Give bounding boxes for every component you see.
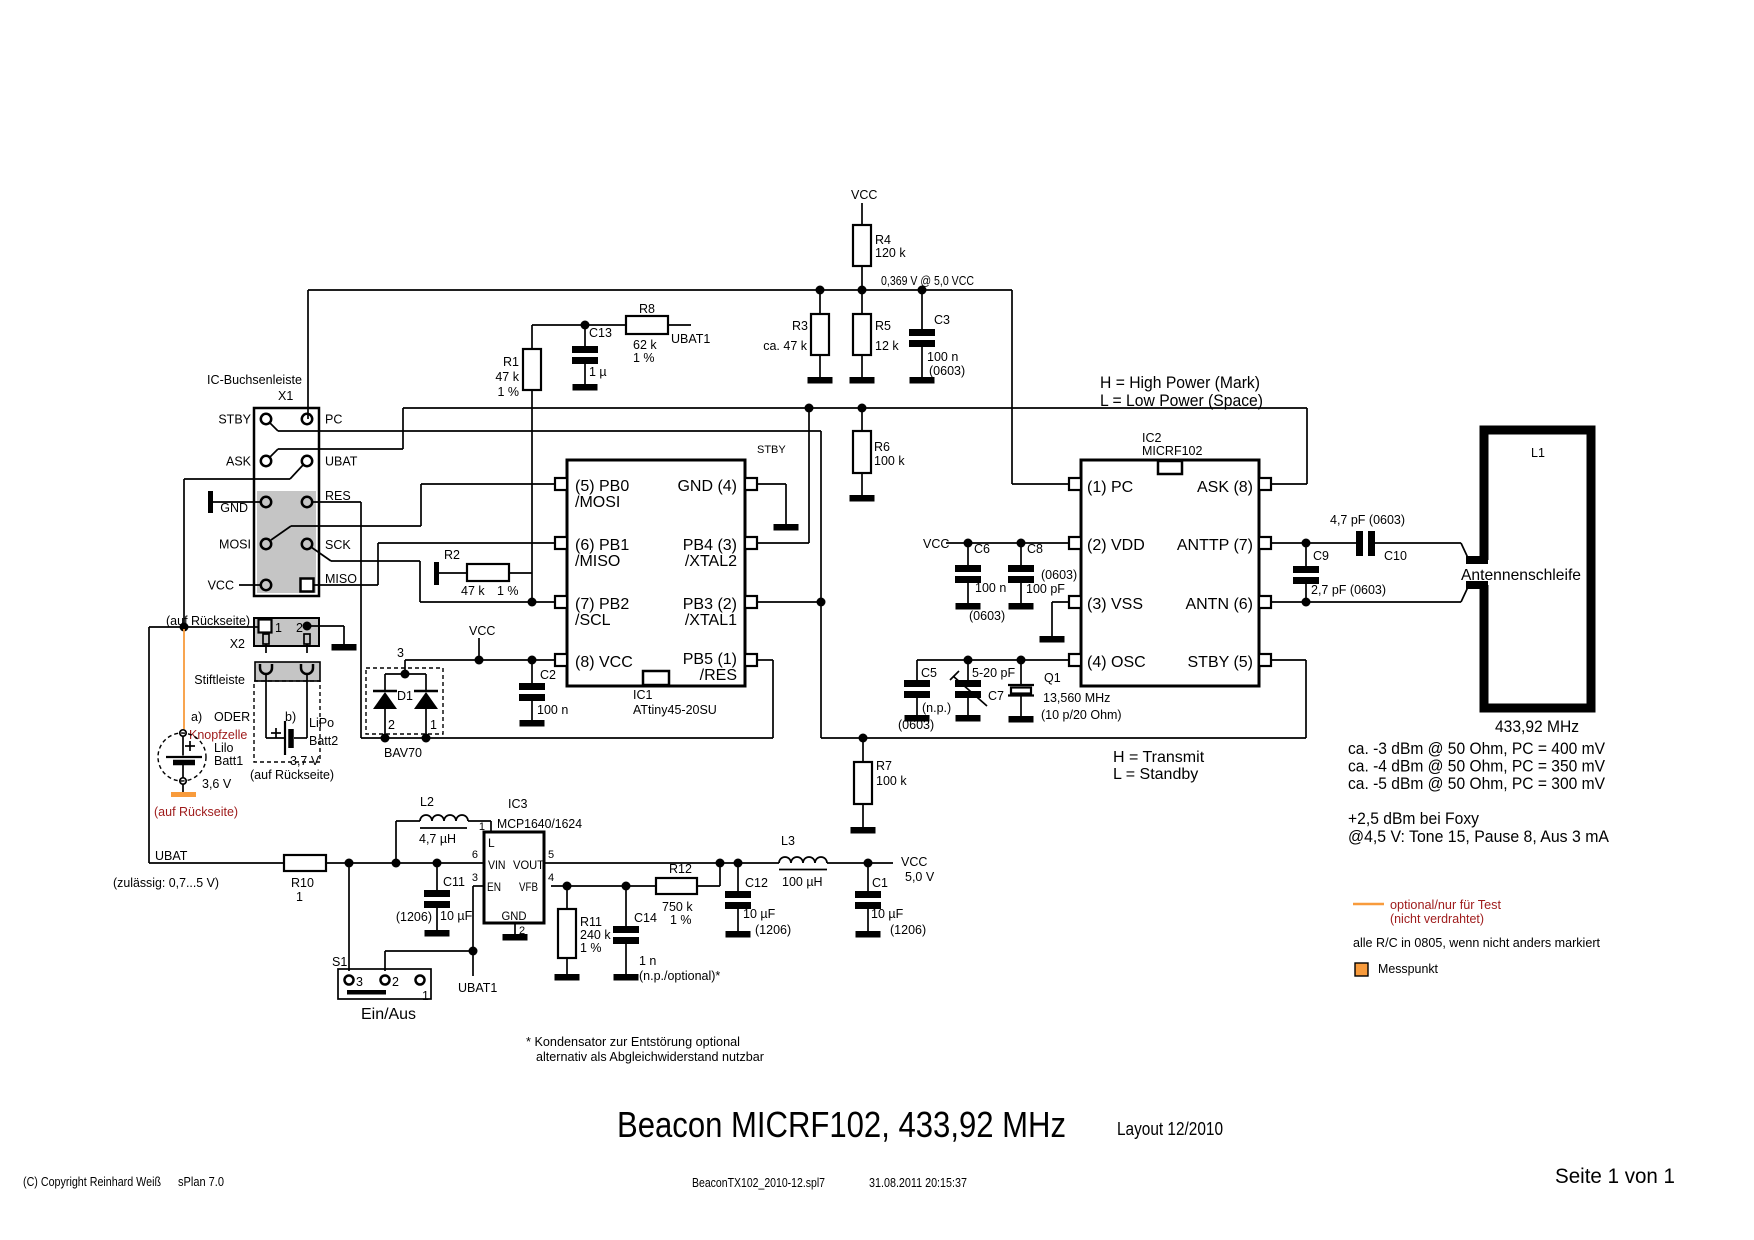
svg-text:UBAT1: UBAT1 <box>458 981 497 995</box>
svg-text:(1) PC: (1) PC <box>1087 479 1133 496</box>
capacitor C11 <box>436 863 438 890</box>
ground (IC2 VSS) <box>1040 636 1065 643</box>
ground (R6) <box>850 495 875 502</box>
resistor R10 <box>284 855 326 871</box>
wire UBAT to X2 pin1 <box>149 626 259 628</box>
svg-text:4: 4 <box>548 872 554 884</box>
svg-text:100 n: 100 n <box>927 350 958 364</box>
svg-text:C13: C13 <box>589 326 612 340</box>
inductor L3 <box>779 857 827 863</box>
svg-text:a): a) <box>191 710 202 724</box>
svg-text:R5: R5 <box>875 319 891 333</box>
wire EN / UBAT1 <box>473 885 484 887</box>
svg-text:ca. -5 dBm @ 50 Ohm, PC = 300: ca. -5 dBm @ 50 Ohm, PC = 300 mV <box>1348 774 1606 793</box>
wire UBAT from X1 <box>290 465 303 479</box>
svg-text:3,7 V: 3,7 V <box>290 754 320 768</box>
svg-text:ca. -4 dBm @ 50 Ohm, PC = 350: ca. -4 dBm @ 50 Ohm, PC = 350 mV <box>1348 757 1606 776</box>
svg-text:100 n: 100 n <box>537 703 568 717</box>
node 0,369V rail (PC net) <box>308 289 1012 291</box>
ground (R3) <box>808 377 833 384</box>
antenna loop L1 <box>1484 430 1591 708</box>
wire VCC rail IC1 <box>405 659 555 661</box>
capacitor C6 <box>967 543 969 565</box>
wire R4 to rail <box>861 266 863 290</box>
trimmer capacitor C7 <box>967 660 969 680</box>
ground (C5) <box>905 715 930 722</box>
svg-text:STBY (5): STBY (5) <box>1188 654 1254 671</box>
X1 pin ASK <box>261 456 271 466</box>
svg-text:C6: C6 <box>974 542 990 556</box>
svg-text:LiPo: LiPo <box>309 716 334 730</box>
svg-text:(10 p/20 Ohm): (10 p/20 Ohm) <box>1041 708 1122 722</box>
svg-text:MISO: MISO <box>325 572 357 586</box>
wire UBAT rail <box>148 627 150 863</box>
svg-text:1 n: 1 n <box>639 954 656 968</box>
svg-text:C14: C14 <box>634 911 657 925</box>
svg-text:(nicht verdrahtet): (nicht verdrahtet) <box>1390 911 1484 926</box>
ground (C14) <box>614 974 639 981</box>
svg-text:VFB: VFB <box>519 880 538 894</box>
svg-text:PB3 (2): PB3 (2) <box>683 596 737 613</box>
X1 pin UBAT <box>302 456 312 466</box>
svg-text:(6) PB1: (6) PB1 <box>575 537 629 554</box>
svg-text:VCC: VCC <box>469 624 495 638</box>
wire VOUT rail <box>544 862 779 864</box>
svg-text:C7: C7 <box>988 689 1004 703</box>
capacitor C2 <box>528 656 537 665</box>
svg-text:120 k: 120 k <box>875 246 906 260</box>
svg-text:R6: R6 <box>874 440 890 454</box>
svg-text:13,560 MHz: 13,560 MHz <box>1043 691 1110 705</box>
wire MOSI to PB0 <box>271 526 291 540</box>
X1 pin MOSI <box>261 539 271 549</box>
svg-text:R10: R10 <box>291 876 314 890</box>
svg-text:R7: R7 <box>876 759 892 773</box>
svg-text:47 k: 47 k <box>461 584 485 598</box>
X1 pin SCK <box>302 539 312 549</box>
svg-text:H = High Power (Mark): H = High Power (Mark) <box>1100 373 1260 392</box>
diode D1 (BAV70 dual) <box>366 668 443 734</box>
svg-text:VIN: VIN <box>488 858 506 872</box>
svg-text:1: 1 <box>296 890 303 904</box>
svg-text:STBY: STBY <box>757 444 786 456</box>
svg-text:L1: L1 <box>1531 446 1545 460</box>
X1 pin VCC <box>261 580 271 590</box>
svg-text:C2: C2 <box>540 668 556 682</box>
capacitor C14 <box>625 886 627 926</box>
svg-text:1: 1 <box>275 621 282 635</box>
svg-text:R2: R2 <box>444 548 460 562</box>
svg-text:5: 5 <box>548 849 554 861</box>
svg-text:MCP1640/1624: MCP1640/1624 <box>497 817 582 831</box>
svg-text:VCC: VCC <box>901 855 927 869</box>
terminal (auf Rückseite) orange <box>171 792 196 797</box>
ground (C3) <box>910 377 935 384</box>
svg-text:(1206): (1206) <box>890 923 926 937</box>
svg-text:BAV70: BAV70 <box>384 746 422 760</box>
svg-text:alternativ als Abgleichwiderst: alternativ als Abgleichwiderstand nutzba… <box>536 1049 765 1064</box>
svg-text:ASK: ASK <box>226 455 252 469</box>
svg-text:C9: C9 <box>1313 549 1329 563</box>
wire RES from X1 <box>313 501 361 503</box>
wire PC riser to rail <box>307 290 309 419</box>
svg-text:(3) VSS: (3) VSS <box>1087 596 1143 613</box>
capacitor C9 <box>1305 543 1307 566</box>
svg-text:S1: S1 <box>332 955 347 969</box>
svg-text:1: 1 <box>430 718 437 732</box>
resistor R8 <box>626 316 668 334</box>
legend optional <box>1353 903 1384 906</box>
svg-text:L = Standby: L = Standby <box>1113 766 1198 783</box>
ground (R11) <box>555 974 580 981</box>
svg-text:100 n: 100 n <box>975 581 1006 595</box>
wire VSS to ground <box>1052 601 1069 603</box>
inductor L2 <box>395 821 397 863</box>
wire SCK to PB2 <box>311 547 331 561</box>
svg-text:3: 3 <box>472 872 478 884</box>
resistor R3 <box>819 290 821 314</box>
svg-text:sPlan 7.0: sPlan 7.0 <box>178 1174 224 1189</box>
svg-text:* Kondensator zur Entstörung o: * Kondensator zur Entstörung optional <box>526 1034 740 1049</box>
svg-text:Batt1: Batt1 <box>214 754 243 768</box>
svg-text:SCK: SCK <box>325 538 351 552</box>
ground (Q1) <box>1009 716 1034 723</box>
svg-text:2: 2 <box>392 975 399 989</box>
wire STBY from X1 <box>270 423 278 431</box>
svg-text:PC: PC <box>325 413 342 427</box>
wire ASK rail <box>403 407 1307 409</box>
svg-text:b): b) <box>285 710 296 724</box>
svg-text:(0603): (0603) <box>1041 568 1077 582</box>
svg-text:C11: C11 <box>443 875 465 889</box>
wire OSC rail <box>917 659 1069 661</box>
svg-text:R3: R3 <box>792 319 808 333</box>
resistor R6 <box>861 408 863 431</box>
svg-text:Messpunkt: Messpunkt <box>1378 961 1438 976</box>
svg-text:1 %: 1 % <box>633 351 655 365</box>
X1 pin GND <box>261 497 271 507</box>
svg-text:/MOSI: /MOSI <box>575 494 620 511</box>
ground (C6) <box>956 603 981 610</box>
svg-text:10 µF: 10 µF <box>871 907 904 921</box>
wire ASK drop to IC2 <box>1306 408 1308 484</box>
ground (C1) <box>856 931 881 938</box>
svg-text:EN: EN <box>487 880 501 894</box>
svg-text:(zulässig: 0,7...5 V): (zulässig: 0,7...5 V) <box>113 875 219 890</box>
ground (C12) <box>726 931 751 938</box>
switch S1 Ein/Aus <box>348 863 350 971</box>
svg-text:R4: R4 <box>875 233 891 247</box>
svg-text:D1: D1 <box>397 689 413 703</box>
svg-text:(0603): (0603) <box>969 609 1005 623</box>
svg-text:alle R/C in 0805, wenn nicht a: alle R/C in 0805, wenn nicht anders mark… <box>1353 935 1600 950</box>
svg-text:1 %: 1 % <box>497 385 519 399</box>
svg-text:2: 2 <box>388 718 395 732</box>
ground (C13) <box>573 384 598 391</box>
test point (R2) <box>434 562 439 585</box>
svg-text:10 µF: 10 µF <box>743 907 776 921</box>
capacitor C10 <box>1356 531 1363 556</box>
capacitor C1 <box>867 863 869 891</box>
svg-text:L3: L3 <box>781 834 795 848</box>
ground (C8) <box>1009 603 1034 610</box>
svg-text:R11: R11 <box>580 915 602 929</box>
svg-text:12 k: 12 k <box>875 339 899 353</box>
svg-text:(0603): (0603) <box>929 364 965 378</box>
svg-text:GND: GND <box>220 501 248 515</box>
svg-text:IC-Buchsenleiste: IC-Buchsenleiste <box>207 373 302 387</box>
svg-text:C3: C3 <box>934 313 950 327</box>
X1 pin MISO (square) <box>301 579 314 592</box>
svg-text:2,7 pF (0603): 2,7 pF (0603) <box>1311 583 1386 597</box>
svg-text:UBAT1: UBAT1 <box>671 332 710 346</box>
svg-text:3: 3 <box>356 975 363 989</box>
svg-text:/XTAL1: /XTAL1 <box>685 612 737 629</box>
svg-text:100 k: 100 k <box>874 454 905 468</box>
ground (R7) <box>851 827 876 834</box>
ground (C7) <box>956 715 981 722</box>
capacitor C5 <box>916 660 918 680</box>
svg-text:MOSI: MOSI <box>219 538 251 552</box>
svg-text:L = Low Power (Space): L = Low Power (Space) <box>1100 391 1263 410</box>
battery Batt2 (LiPo) <box>254 681 320 762</box>
svg-text:31.08.2011 20:15:37: 31.08.2011 20:15:37 <box>869 1175 967 1190</box>
svg-text:ca. -3 dBm @ 50 Ohm, PC = 400: ca. -3 dBm @ 50 Ohm, PC = 400 mV <box>1348 739 1606 758</box>
svg-text:VOUT: VOUT <box>513 858 545 872</box>
svg-text:10 µF: 10 µF <box>440 909 473 923</box>
wire VIN rail <box>326 862 484 864</box>
svg-text:ASK (8): ASK (8) <box>1197 479 1253 496</box>
resistor R2 <box>439 572 467 574</box>
svg-text:C10: C10 <box>1384 549 1407 563</box>
svg-text:Antennenschleife: Antennenschleife <box>1461 567 1581 584</box>
ground (IC3) <box>503 934 528 941</box>
svg-text:UBAT: UBAT <box>155 849 188 863</box>
svg-text:VCC: VCC <box>208 579 234 593</box>
svg-text:(n.p./optional)*: (n.p./optional)* <box>639 969 720 983</box>
crystal Q1 <box>1020 660 1022 684</box>
svg-text:Lilo: Lilo <box>214 741 234 755</box>
svg-text:VCC: VCC <box>923 537 949 551</box>
svg-text:/SCL: /SCL <box>575 612 611 629</box>
svg-text:/XTAL2: /XTAL2 <box>685 553 737 570</box>
wire PB4 to ASK rail <box>757 542 809 544</box>
svg-text:100 µH: 100 µH <box>782 875 823 889</box>
wire RES rail <box>361 737 773 739</box>
svg-text:X1: X1 <box>278 389 293 403</box>
svg-text:PB4 (3): PB4 (3) <box>683 537 737 554</box>
svg-text:X2: X2 <box>230 637 245 651</box>
wire IC1 GND(4) to ground <box>757 483 786 485</box>
svg-text:ATtiny45-20SU: ATtiny45-20SU <box>633 703 717 717</box>
svg-text:1 %: 1 % <box>580 941 602 955</box>
svg-text:(auf Rückseite): (auf Rückseite) <box>250 768 334 782</box>
svg-text:IC2: IC2 <box>1142 431 1162 445</box>
svg-text:C5: C5 <box>921 666 937 680</box>
svg-text:(5) PB0: (5) PB0 <box>575 478 629 495</box>
wire PC rail down to IC2 <box>1011 290 1013 484</box>
svg-text:(auf Rückseite): (auf Rückseite) <box>166 614 250 628</box>
svg-text:GND: GND <box>502 909 527 923</box>
svg-text:(4) OSC: (4) OSC <box>1087 654 1146 671</box>
X1 pin PC <box>302 414 312 424</box>
svg-text:Q1: Q1 <box>1044 671 1061 685</box>
svg-text:0,369 V @ 5,0 VCC: 0,369 V @ 5,0 VCC <box>881 274 974 288</box>
ground (C11) <box>425 930 450 937</box>
svg-text:UBAT: UBAT <box>325 455 358 469</box>
svg-text:Seite 1 von 1: Seite 1 von 1 <box>1555 1165 1675 1188</box>
svg-text:750 k: 750 k <box>662 900 693 914</box>
svg-text:Stiftleiste: Stiftleiste <box>194 673 245 687</box>
legend Messpunkt <box>1355 963 1368 976</box>
resistor R7 <box>859 734 868 743</box>
wire MISO to PB1 <box>314 584 378 586</box>
wire PB3 to STBY net <box>757 601 821 603</box>
svg-text:47 k: 47 k <box>495 370 519 384</box>
ground (R5) <box>850 377 875 384</box>
svg-text:Layout 12/2010: Layout 12/2010 <box>1117 1119 1223 1139</box>
svg-text:(2) VDD: (2) VDD <box>1087 537 1145 554</box>
wire X2 pin2 to ground <box>303 622 312 631</box>
svg-text:L: L <box>488 836 495 850</box>
svg-text:6: 6 <box>472 849 478 861</box>
capacitor C8 <box>1020 543 1022 565</box>
svg-text:Batt2: Batt2 <box>309 734 338 748</box>
svg-text:PB5 (1): PB5 (1) <box>683 651 737 668</box>
ground (C2) <box>520 720 545 727</box>
svg-text:433,92 MHz: 433,92 MHz <box>1495 717 1579 736</box>
svg-text:100 k: 100 k <box>876 774 907 788</box>
svg-text:C8: C8 <box>1027 542 1043 556</box>
test point GND (X1) <box>208 491 213 513</box>
ground (IC1 GND) <box>774 524 799 531</box>
svg-text:STBY: STBY <box>218 413 251 427</box>
svg-text:5-20 pF: 5-20 pF <box>972 666 1015 680</box>
svg-text:1 µ: 1 µ <box>589 365 607 379</box>
svg-text:H = Transmit: H = Transmit <box>1113 749 1205 766</box>
X1 pin STBY <box>261 414 271 424</box>
svg-text:(1206): (1206) <box>755 923 791 937</box>
wire ANTTP <box>1271 542 1357 544</box>
resistor R5 <box>861 290 863 314</box>
svg-text:1: 1 <box>422 989 429 1003</box>
resistor R12 <box>656 878 697 894</box>
wire STBY drop and bottom rail <box>820 431 822 738</box>
svg-text:R1: R1 <box>503 355 519 369</box>
svg-text:C1: C1 <box>872 876 888 890</box>
capacitor C12 <box>737 863 739 891</box>
svg-text:RES: RES <box>325 489 351 503</box>
svg-text:100 pF: 100 pF <box>1026 582 1065 596</box>
svg-text:(C) Copyright Reinhard Weiß: (C) Copyright Reinhard Weiß <box>23 1174 161 1189</box>
wire UBAT1 net <box>532 324 626 326</box>
capacitor C13 <box>581 321 590 330</box>
svg-text:1 %: 1 % <box>497 584 519 598</box>
svg-text:@4,5 V: Tone 15, Pause 8, Aus: @4,5 V: Tone 15, Pause 8, Aus 3 mA <box>1348 827 1610 846</box>
svg-text:MICRF102: MICRF102 <box>1142 444 1202 458</box>
svg-text:62 k: 62 k <box>633 338 657 352</box>
svg-text:VCC: VCC <box>851 188 877 202</box>
capacitor C3 <box>921 290 923 329</box>
svg-text:ANTN (6): ANTN (6) <box>1185 596 1253 613</box>
svg-text:L2: L2 <box>420 795 434 809</box>
op IC1 ATtiny45-20SU <box>567 460 745 686</box>
wire ANTN <box>1271 601 1461 603</box>
resistor R11 <box>566 886 568 909</box>
svg-text:(auf Rückseite): (auf Rückseite) <box>154 805 238 819</box>
svg-text:ca. 47 k: ca. 47 k <box>763 339 808 353</box>
svg-text:2: 2 <box>296 621 303 635</box>
svg-text:/MISO: /MISO <box>575 553 620 570</box>
svg-text:(n.p.): (n.p.) <box>922 701 951 715</box>
svg-text:5,0 V: 5,0 V <box>905 870 935 884</box>
svg-text:3: 3 <box>397 646 404 660</box>
svg-text:Beacon MICRF102, 433,92 MHz: Beacon MICRF102, 433,92 MHz <box>617 1104 1066 1145</box>
svg-text:ANTTP (7): ANTTP (7) <box>1177 537 1253 554</box>
X1 pin RES <box>302 497 312 507</box>
svg-text:R8: R8 <box>639 302 655 316</box>
svg-text:BeaconTX102_2010-12.spl7: BeaconTX102_2010-12.spl7 <box>692 1175 825 1190</box>
svg-text:4,7 pF (0603): 4,7 pF (0603) <box>1330 513 1405 527</box>
svg-text:/RES: /RES <box>700 667 737 684</box>
svg-text:(8) VCC: (8) VCC <box>575 654 633 671</box>
ground (X2) <box>332 644 357 651</box>
svg-text:C12: C12 <box>745 876 768 890</box>
svg-text:(7) PB2: (7) PB2 <box>575 596 629 613</box>
svg-text:ODER: ODER <box>214 710 250 724</box>
svg-text:GND (4): GND (4) <box>677 478 737 495</box>
svg-text:R12: R12 <box>669 862 692 876</box>
svg-text:IC3: IC3 <box>508 797 528 811</box>
wire R1 bottom long drop to PB2 node <box>531 390 533 602</box>
svg-text:4,7 µH: 4,7 µH <box>419 832 456 846</box>
svg-text:3,6 V: 3,6 V <box>202 777 232 791</box>
svg-text:IC1: IC1 <box>633 688 653 702</box>
svg-text:Knopfzelle: Knopfzelle <box>189 728 247 742</box>
wire VCC 5,0V <box>827 862 893 864</box>
svg-text:240 k: 240 k <box>580 928 611 942</box>
svg-text:optional/nur für Test: optional/nur für Test <box>1390 897 1501 912</box>
svg-text:1 %: 1 % <box>670 913 692 927</box>
wire ASK from X1 <box>270 449 278 457</box>
resistor R1 <box>531 325 533 349</box>
svg-text:+2,5 dBm bei Foxy: +2,5 dBm bei Foxy <box>1348 809 1479 828</box>
wire IC3 GND pin <box>514 923 516 934</box>
svg-text:(1206): (1206) <box>396 910 432 924</box>
resistor R4 <box>853 225 871 266</box>
svg-text:Ein/Aus: Ein/Aus <box>361 1006 416 1023</box>
wire VFB rail <box>551 885 656 887</box>
